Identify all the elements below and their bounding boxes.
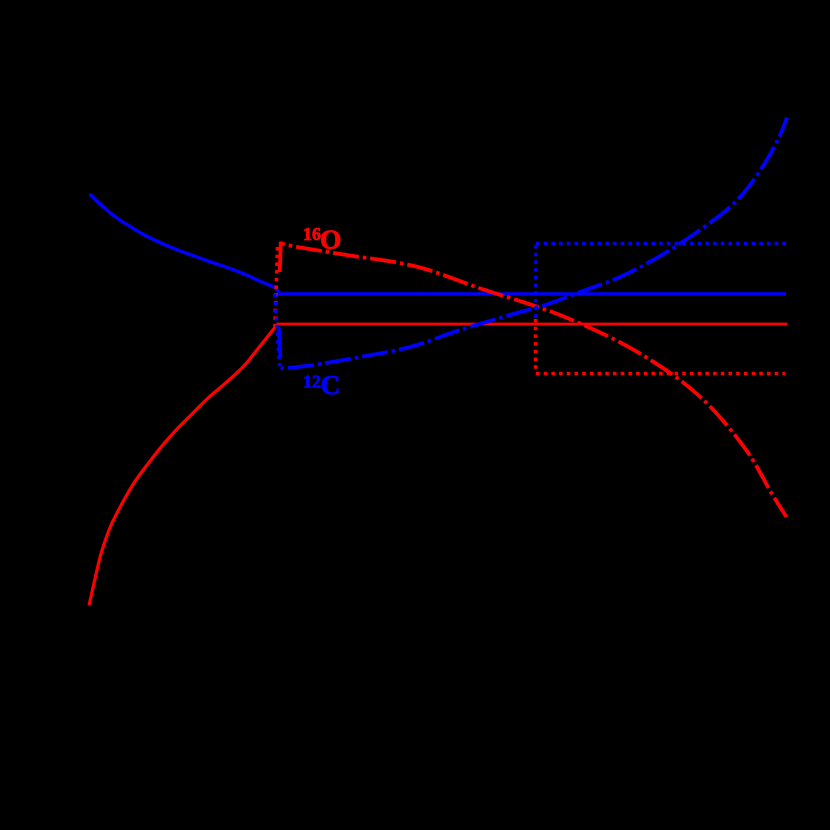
svg-text:12: 12 (303, 372, 321, 392)
blue solid curve: X(12C) pre-transition (90, 194, 279, 292)
blue dotted horizontal line y=243.5 (536, 242, 787, 246)
red first vertical dash of dashed curve (280, 242, 281, 273)
blue horizontal solid line y=293.9 (277, 292, 786, 295)
red solid curve: X(16O) pre-transition (89, 324, 279, 606)
red dotted vertical at x=535.5 (534, 319, 538, 373)
red dash-dot curve: X(16O) descending (281, 244, 787, 518)
red dotted horizontal line y=373.5 (536, 372, 785, 376)
blue dotted connector (slanted vertical) (275, 294, 280, 366)
svg-text:C: C (321, 369, 341, 400)
svg-text:16: 16 (303, 224, 321, 244)
red horizontal solid line y=324.3 (277, 323, 788, 326)
blue dotted vertical at x=535.9 (534, 245, 538, 319)
svg-text:O: O (320, 223, 341, 254)
blue dash-dot curve: X(12C) ascending (281, 118, 788, 369)
blue first vertical dash of dashed curve (279, 327, 281, 357)
red dotted connector (slanted vertical) (275, 247, 278, 330)
